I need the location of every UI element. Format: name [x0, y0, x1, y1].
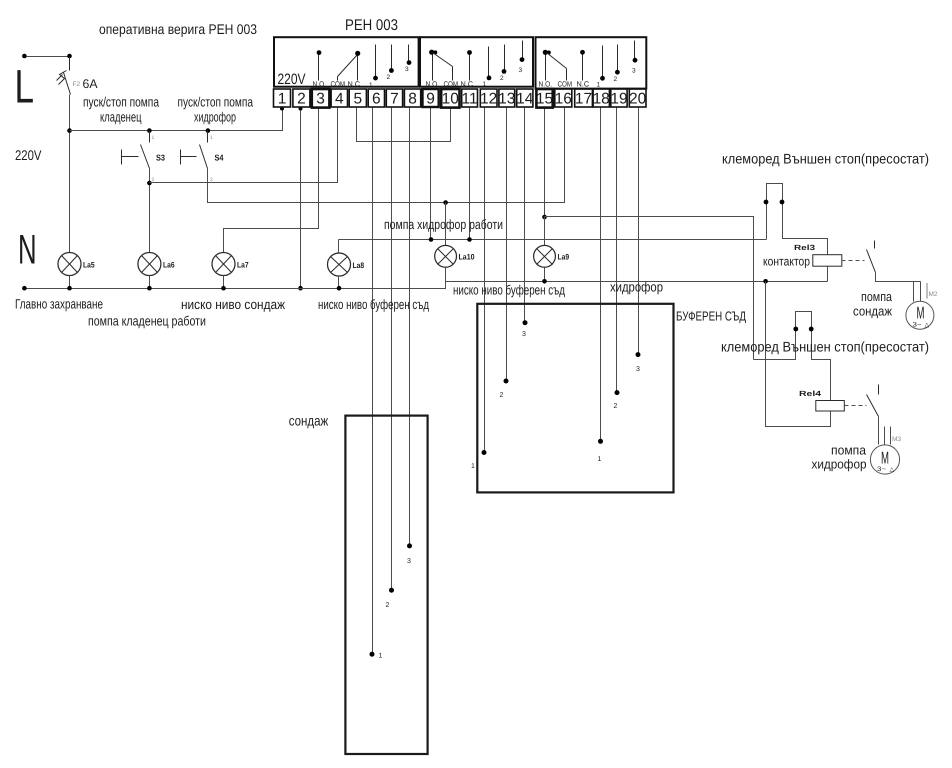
- svg-text:18: 18: [593, 90, 610, 107]
- svg-text:1: 1: [379, 653, 383, 660]
- terminal 16: [555, 89, 572, 107]
- svg-text:N.O.: N.O.: [539, 80, 553, 89]
- terminal 5: [349, 89, 366, 107]
- svg-text:1: 1: [471, 463, 475, 470]
- svg-text:N.C: N.C: [577, 80, 590, 89]
- svg-text:оперативна верига РЕН 003: оперативна верига РЕН 003: [99, 21, 257, 37]
- svg-text:La7: La7: [237, 261, 249, 270]
- svg-text:M2: M2: [929, 291, 938, 298]
- relay contact section 1 COM-NC blade: [338, 51, 361, 81]
- wire L rail top: [25, 56, 70, 58]
- svg-text:2: 2: [297, 90, 306, 107]
- svg-text:La5: La5: [83, 261, 95, 270]
- terminal 15: [536, 89, 553, 108]
- junction S3 bottom: [147, 181, 152, 186]
- node external stop jumper 2 (Rel4): [754, 282, 831, 427]
- svg-text:2: 2: [387, 74, 391, 81]
- svg-text:3~: 3~: [877, 466, 886, 473]
- svg-text:16: 16: [555, 90, 572, 107]
- svg-text:1: 1: [210, 135, 213, 141]
- svg-text:220V: 220V: [278, 71, 306, 88]
- svg-text:20: 20: [629, 90, 647, 107]
- svg-text:кладенец: кладенец: [100, 110, 142, 125]
- junction L rail left end: [22, 54, 27, 59]
- relay contact section 2 N.O.-COM blade: [429, 50, 452, 81]
- wire probe 2 sondazh (terminal 7): [391, 107, 393, 591]
- svg-text:△: △: [925, 323, 930, 329]
- junction terminal 1 bottom: [280, 107, 284, 111]
- wire 220V rail to terminal 1: [70, 107, 283, 131]
- svg-text:пуск/стоп помпа: пуск/стоп помпа: [178, 95, 254, 110]
- terminal 2: [293, 89, 310, 107]
- wire probe 3 sondazh (terminal 8): [409, 107, 411, 546]
- wire Rel4 coil to contact (dashed): [845, 405, 867, 407]
- svg-text:1: 1: [278, 90, 287, 107]
- junction terminal 2 bottom: [299, 107, 303, 111]
- wire probe 1 buffer left (terminal 12): [484, 107, 486, 453]
- svg-text:COM: COM: [444, 80, 459, 89]
- svg-text:помпа кладенец работи: помпа кладенец работи: [88, 314, 206, 329]
- wire S3 to terminal 4: [150, 107, 338, 183]
- svg-text:13: 13: [498, 90, 515, 107]
- relay contact section 2 N.C. stub: [467, 50, 472, 80]
- svg-text:2: 2: [500, 75, 504, 82]
- svg-text:N: N: [18, 226, 37, 273]
- svg-text:5: 5: [353, 90, 362, 107]
- svg-text:клеморед Външен стоп(пресостат: клеморед Външен стоп(пресостат): [721, 339, 929, 355]
- junction terminal 9 wire: [429, 237, 434, 242]
- wire probe 1 sondazh (terminal 6): [372, 107, 374, 655]
- junction terminal 15 wire / Rel3 branch: [542, 215, 547, 220]
- svg-text:1: 1: [369, 82, 373, 89]
- terminal 20: [629, 89, 647, 107]
- svg-text:помпа хидрофор работи: помпа хидрофор работи: [384, 217, 503, 232]
- svg-text:F2: F2: [73, 81, 81, 88]
- svg-text:220V: 220V: [15, 147, 42, 163]
- terminal 7: [386, 89, 402, 107]
- relay contact section 3 N.C. stub: [580, 50, 585, 81]
- svg-text:3: 3: [636, 366, 640, 373]
- svg-text:3: 3: [407, 558, 411, 565]
- svg-text:COM: COM: [558, 80, 573, 89]
- svg-text:4: 4: [335, 90, 344, 107]
- motor M2: [906, 301, 934, 329]
- wire Rel3 coil to contact (dashed): [842, 260, 865, 262]
- lamp La10: [435, 203, 457, 289]
- svg-text:6A: 6A: [83, 77, 99, 91]
- junction N rail at La9: [542, 279, 547, 284]
- svg-text:помпа: помпа: [831, 443, 867, 458]
- wire probe 1 buffer right (terminal 18): [600, 107, 602, 442]
- terminal 1: [274, 89, 291, 107]
- lamp La7: [212, 253, 235, 289]
- svg-text:7: 7: [390, 90, 399, 107]
- wire terminal 2 to N rail: [300, 107, 302, 289]
- probe stub 3 section 3: [632, 41, 637, 75]
- tank sondazh box: [345, 416, 427, 754]
- svg-text:M3: M3: [892, 436, 901, 443]
- svg-text:1: 1: [483, 81, 487, 88]
- terminal 3: [312, 89, 330, 108]
- terminal 13: [498, 89, 515, 107]
- wire terminal 11 riser: [469, 107, 471, 240]
- terminal 9: [423, 89, 439, 107]
- svg-text:3: 3: [522, 331, 526, 338]
- svg-text:15: 15: [536, 90, 553, 107]
- terminal 17: [575, 89, 593, 107]
- svg-text:3: 3: [405, 66, 409, 73]
- probe stub 1 section 1: [369, 45, 378, 90]
- terminal 6: [368, 89, 384, 107]
- svg-text:1: 1: [598, 456, 602, 463]
- svg-text:Rel3: Rel3: [794, 243, 815, 252]
- svg-text:La9: La9: [558, 253, 570, 262]
- terminal block section 3 box: [536, 37, 647, 88]
- svg-text:11: 11: [462, 90, 478, 107]
- junction N rail at La7: [221, 286, 226, 291]
- lamp La8: [328, 240, 351, 289]
- junction N rail left end: [22, 286, 27, 291]
- svg-text:контактор: контактор: [763, 255, 810, 269]
- svg-text:1: 1: [152, 135, 155, 141]
- svg-text:14: 14: [516, 90, 534, 107]
- svg-text:Главно захранване: Главно захранване: [15, 297, 103, 312]
- junction S4 line / La10 riser: [443, 200, 448, 205]
- junction L rail at fuse: [67, 54, 72, 59]
- terminal 18: [593, 89, 610, 107]
- svg-text:N.C.: N.C.: [461, 80, 476, 89]
- svg-text:17: 17: [575, 90, 592, 107]
- terminal 19: [610, 89, 627, 107]
- junction N rail at La6: [147, 286, 152, 291]
- relay coil Rel4: [816, 401, 845, 412]
- wire terminal 15 branch to Rel3: [545, 217, 754, 360]
- probe stub 3 section 1: [405, 45, 411, 74]
- svg-text:ниско ниво сондаж: ниско ниво сондаж: [181, 297, 285, 312]
- probe stub 3 section 2: [519, 41, 525, 75]
- svg-text:2: 2: [386, 602, 390, 609]
- svg-text:пуск/стоп помпа: пуск/стоп помпа: [83, 95, 159, 110]
- junction terminal 11 wire: [467, 237, 472, 242]
- node external stop jumper 1 (Rel3): [764, 184, 828, 282]
- terminal 12: [480, 89, 497, 107]
- wire La8 line to external stop jumper: [339, 239, 767, 241]
- relay contact section 1 N.O. stub: [317, 50, 322, 80]
- svg-text:COM: COM: [331, 80, 346, 89]
- svg-text:сондаж: сондаж: [853, 304, 892, 319]
- lamp La6: [138, 253, 161, 289]
- junction N rail at La5: [67, 286, 72, 291]
- svg-text:N.O.: N.O.: [426, 80, 440, 89]
- wire probe 2 buffer left (terminal 13): [506, 107, 508, 381]
- contact Rel4 switch: [867, 385, 879, 445]
- junction N rail at La8: [337, 286, 342, 291]
- svg-text:2: 2: [614, 76, 618, 83]
- wire probe 3 buffer left (terminal 14): [524, 107, 526, 323]
- probe stub 2 section 2: [500, 45, 506, 83]
- svg-text:БУФЕРЕН СЪД: БУФЕРЕН СЪД: [676, 309, 746, 324]
- terminal 14: [516, 89, 534, 107]
- tank buffer box: [477, 304, 673, 493]
- terminal block section 2 box: [420, 37, 533, 86]
- svg-text:8: 8: [408, 90, 417, 107]
- switch S3: [122, 131, 155, 184]
- svg-text:La6: La6: [163, 261, 175, 270]
- svg-text:2: 2: [614, 403, 618, 410]
- svg-text:10: 10: [442, 90, 460, 107]
- svg-text:S3: S3: [156, 152, 165, 162]
- terminal 11: [462, 89, 478, 107]
- junction 220V rail at S4: [206, 128, 211, 133]
- svg-text:La8: La8: [353, 261, 365, 270]
- probe stub 2 section 1: [387, 45, 394, 82]
- svg-text:1: 1: [597, 82, 601, 89]
- op-amp ignore: terminal block section 1 box: [274, 37, 419, 86]
- contact Rel3 (contactor switch): [867, 241, 921, 282]
- lamp La9: [534, 217, 556, 282]
- wire probe 3 buffer right (terminal 20): [638, 107, 640, 355]
- junction terminal 2 wire / N rail: [298, 286, 303, 291]
- svg-text:6: 6: [372, 90, 381, 107]
- wire terminal 9 riser: [430, 107, 432, 240]
- junction fuse wire / 220V rail: [67, 128, 72, 133]
- svg-text:Rel4: Rel4: [799, 389, 822, 398]
- svg-text:2: 2: [500, 392, 504, 399]
- svg-text:хидрофор: хидрофор: [812, 457, 867, 472]
- lamp La5: [58, 253, 81, 289]
- svg-text:РЕН 003: РЕН 003: [345, 17, 398, 34]
- svg-text:12: 12: [480, 90, 497, 107]
- svg-text:S4: S4: [215, 152, 224, 162]
- wire terminal 5 to terminal 10: [357, 107, 451, 142]
- wire terminal 15 to lamp La9: [544, 107, 546, 246]
- svg-text:3: 3: [632, 68, 636, 75]
- terminal 10: [441, 89, 459, 108]
- svg-text:сондаж: сондаж: [289, 412, 329, 428]
- junction 220V rail at S3: [147, 128, 152, 133]
- probe stub 1 section 2: [483, 47, 492, 89]
- switch S4: [181, 131, 214, 184]
- svg-text:3: 3: [316, 90, 325, 107]
- motor M3: [870, 445, 899, 474]
- terminal 4: [331, 89, 347, 107]
- probe stub 2 section 3: [614, 45, 620, 84]
- junction N rail at Rel4 return: [763, 279, 768, 284]
- svg-text:L: L: [15, 60, 35, 113]
- svg-text:помпа: помпа: [861, 289, 893, 304]
- svg-text:ниско ниво буферен съд: ниско ниво буферен съд: [453, 283, 565, 298]
- svg-text:N.C.: N.C.: [348, 80, 363, 89]
- relay coil Rel3: [813, 255, 842, 267]
- wire fuse to lamp La5 top: [69, 95, 71, 253]
- svg-text:ниско ниво буферен съд: ниско ниво буферен съд: [318, 297, 429, 312]
- svg-text:M: M: [917, 304, 925, 323]
- svg-text:хидрофор: хидрофор: [610, 280, 663, 295]
- wire motor M3 leads: [885, 427, 891, 445]
- svg-text:M: M: [881, 449, 889, 468]
- svg-text:N.O.: N.O.: [313, 80, 327, 89]
- wire motor M2 leads: [914, 282, 928, 302]
- svg-text:9: 9: [426, 90, 435, 107]
- wire probe 2 buffer right (terminal 19): [616, 107, 618, 393]
- fuse F2 (circuit breaker): [57, 57, 71, 95]
- svg-text:хидрофор: хидрофор: [194, 110, 236, 125]
- svg-text:3: 3: [519, 67, 523, 74]
- wire N rail: [25, 282, 828, 289]
- relay contact section 3 N.O.-COM blade: [543, 50, 567, 81]
- svg-text:клеморед Външен стоп(пресостат: клеморед Външен стоп(пресостат): [722, 151, 929, 167]
- wire S3 bottom to lamp La6: [149, 169, 151, 253]
- wire terminal 3 to lamp La7: [224, 107, 319, 253]
- terminal 8: [404, 89, 420, 107]
- svg-text:19: 19: [610, 90, 627, 107]
- svg-text:La10: La10: [459, 253, 475, 262]
- svg-text:3~: 3~: [913, 322, 922, 329]
- wire S4 to terminal 16: [208, 107, 565, 203]
- svg-text:△: △: [890, 467, 895, 473]
- probe stub 1 section 3: [597, 46, 605, 89]
